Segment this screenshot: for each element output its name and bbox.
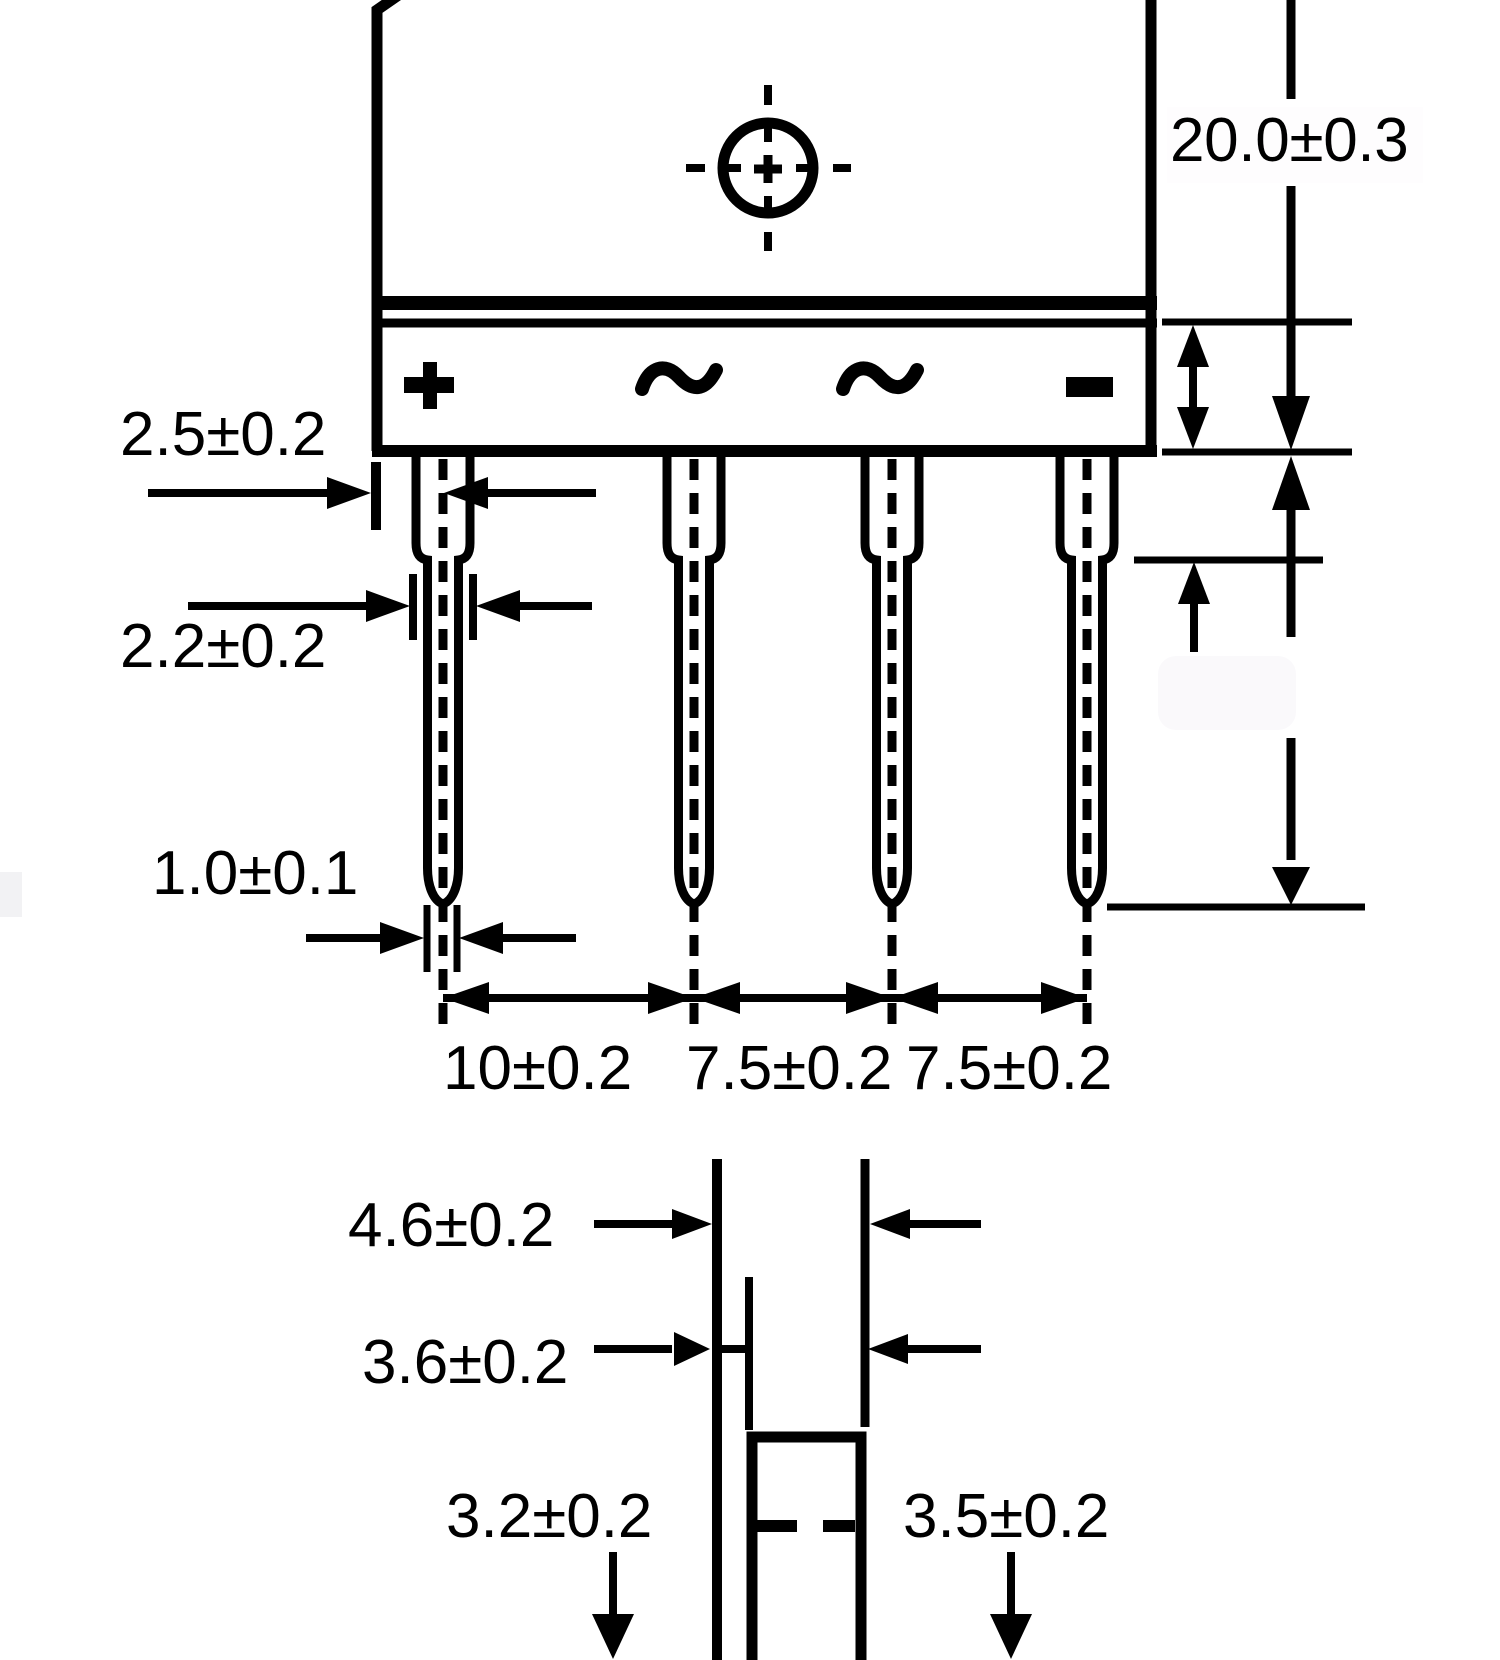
dim 4.6 arrows <box>594 1209 981 1239</box>
mounting hole circle <box>723 123 813 213</box>
dim 1.0 ticks <box>424 905 431 972</box>
svg-text:4.6±0.2: 4.6±0.2 <box>348 1191 554 1260</box>
mounting hole crosshair <box>686 85 851 251</box>
svg-text:20.0±0.3: 20.0±0.3 <box>1170 106 1409 175</box>
body slot line thin <box>372 319 1157 328</box>
pin 3 outline <box>865 456 919 904</box>
svg-text:3.6±0.2: 3.6±0.2 <box>362 1328 568 1397</box>
pin 4 outline <box>1060 456 1114 904</box>
band height dim arrows <box>1177 325 1209 449</box>
svg-text:1.0±0.1: 1.0±0.1 <box>152 839 358 908</box>
body right edge <box>1146 0 1157 451</box>
body left edge with chamfer <box>377 0 400 451</box>
svg-text:2.5±0.2: 2.5±0.2 <box>120 400 326 469</box>
dim 2.2 arrows <box>188 590 592 622</box>
dim 3.2 arrow <box>592 1552 634 1659</box>
svg-text:10±0.2: 10±0.2 <box>443 1034 632 1103</box>
ac terminal symbol 2 <box>843 368 917 389</box>
dim 3.6 arrows <box>594 1332 981 1366</box>
body slot line thick <box>372 296 1157 310</box>
svg-text:2.2±0.2: 2.2±0.2 <box>120 612 326 681</box>
dim 2.2 ticks <box>409 574 417 640</box>
pin 2 outline <box>667 456 721 904</box>
right ext line body bottom <box>1162 449 1352 456</box>
right ext line pin tip <box>1107 904 1365 911</box>
ac terminal symbol 1 <box>642 368 716 389</box>
svg-text:7.5±0.2: 7.5±0.2 <box>686 1034 892 1103</box>
bottom view outer right line <box>861 1159 870 1427</box>
svg-text:3.2±0.2: 3.2±0.2 <box>446 1482 652 1551</box>
right ext line shoulder <box>1134 557 1323 564</box>
plus terminal symbol <box>404 362 454 409</box>
svg-text:7.5±0.2: 7.5±0.2 <box>906 1034 1112 1103</box>
body bottom edge <box>372 445 1157 457</box>
dim 3.5 arrow <box>990 1552 1032 1659</box>
pin 2 centerline <box>690 459 699 1032</box>
svg-text:3.5±0.2: 3.5±0.2 <box>903 1482 1109 1551</box>
bottom view box <box>752 1437 861 1660</box>
pitch dim arrows <box>443 982 1087 1014</box>
pin 3 centerline <box>888 459 897 1032</box>
dim 1.0 arrows <box>306 922 576 954</box>
dim 2.5 arrows <box>148 477 596 509</box>
shoulder dim arrow <box>1178 562 1210 652</box>
dim 2.5 extension line <box>371 462 381 530</box>
bottom view outer left line <box>712 1159 722 1660</box>
faint smudge right <box>1158 656 1296 730</box>
minus terminal symbol <box>1066 377 1113 397</box>
pitch dim line <box>443 994 1087 1002</box>
dim 20.0 line and arrow <box>1272 0 1310 450</box>
bottom view inner line <box>745 1277 753 1430</box>
dim 20.0 label <box>1167 107 1423 183</box>
pin 1 centerline <box>439 459 448 1032</box>
pin 1 outline <box>416 456 470 904</box>
pin 4 centerline <box>1083 459 1092 1032</box>
right ext line top <box>1162 319 1352 326</box>
bottom view box dashed line <box>753 1520 855 1532</box>
pin length dim line and arrows <box>1272 456 1310 905</box>
faint smudge left edge <box>0 872 22 917</box>
